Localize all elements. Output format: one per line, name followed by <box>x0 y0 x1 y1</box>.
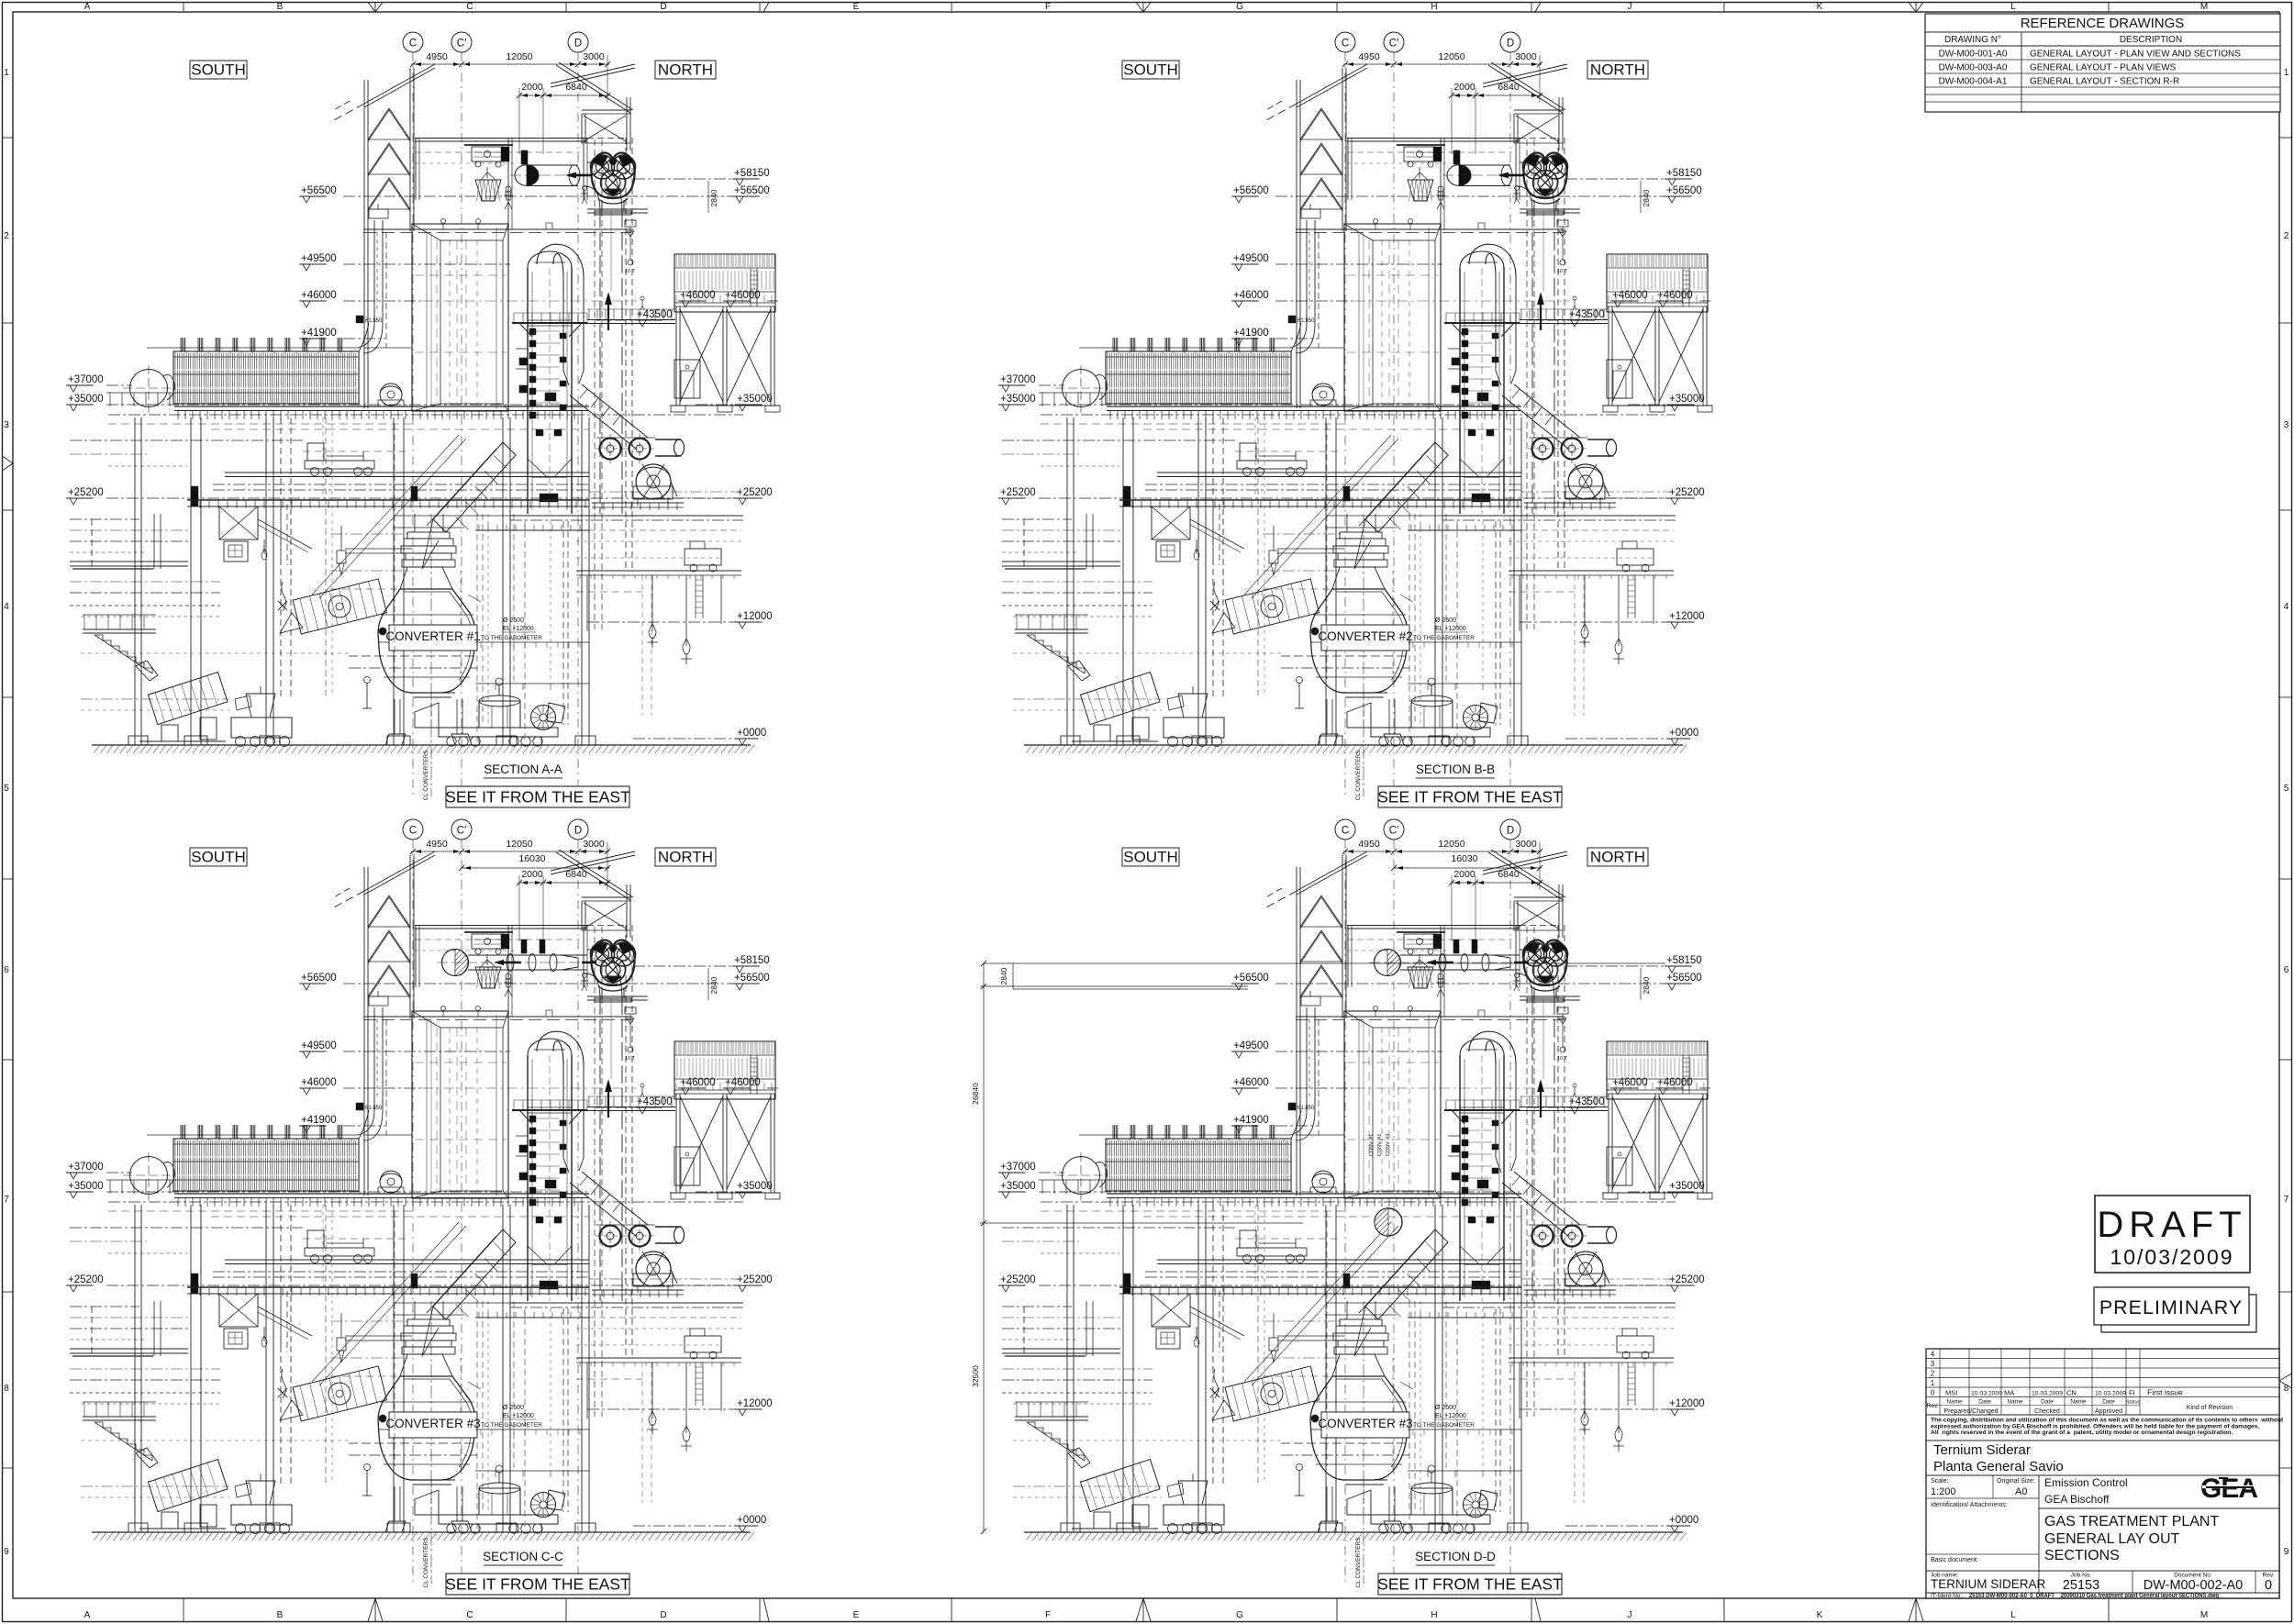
svg-text:1: 1 <box>2284 68 2289 78</box>
svg-text:0: 0 <box>1931 1389 1935 1397</box>
svg-text:CN: CN <box>2066 1388 2077 1396</box>
svg-text:E: E <box>853 1610 860 1620</box>
svg-text:GENERAL LAY OUT: GENERAL LAY OUT <box>2044 1531 2180 1547</box>
svg-text:D: D <box>660 1610 666 1620</box>
svg-text:6: 6 <box>4 965 9 975</box>
svg-text:IT-Ident-No.:: IT-Ident-No.: <box>1931 1593 1964 1599</box>
svg-text:Planta General Savio: Planta General Savio <box>1933 1459 2064 1474</box>
svg-text:Checked: Checked <box>2034 1408 2060 1415</box>
svg-text:SECTIONS: SECTIONS <box>2044 1548 2120 1563</box>
svg-text:L: L <box>2010 1610 2016 1620</box>
svg-text:GENERAL LAYOUT - PLAN VIEW AND: GENERAL LAYOUT - PLAN VIEW AND SECTIONS <box>2030 50 2241 60</box>
svg-text:Status: Status <box>2126 1400 2141 1406</box>
svg-text:Date: Date <box>1978 1399 1991 1406</box>
svg-text:H: H <box>1431 2 1437 12</box>
svg-text:CL CONVERTERS: CL CONVERTERS <box>1355 1537 1362 1588</box>
svg-text:SEE IT FROM THE EAST: SEE IT FROM THE EAST <box>1377 1575 1563 1594</box>
svg-text:3: 3 <box>2284 420 2289 430</box>
svg-text:SECTION B-B: SECTION B-B <box>1416 762 1495 776</box>
svg-text:J: J <box>1628 2 1632 12</box>
svg-text:DW-M00-001-A0: DW-M00-001-A0 <box>1939 50 2008 60</box>
svg-text:FI: FI <box>2129 1388 2135 1396</box>
svg-text:CONVERTER #3: CONVERTER #3 <box>385 1417 480 1430</box>
svg-text:REFERENCE DRAWINGS: REFERENCE DRAWINGS <box>2021 16 2185 31</box>
svg-text:DW-M00-002-A0: DW-M00-002-A0 <box>2144 1578 2244 1593</box>
svg-text:B: B <box>277 1610 284 1620</box>
svg-text:5: 5 <box>2284 784 2289 794</box>
svg-text:10.03.2009: 10.03.2009 <box>1971 1390 2002 1396</box>
svg-text:Date: Date <box>2102 1399 2115 1406</box>
svg-text:D: D <box>660 2 666 12</box>
svg-text:32500: 32500 <box>971 1365 980 1387</box>
svg-text:K: K <box>1817 1610 1823 1620</box>
svg-text:Kind of Revision: Kind of Revision <box>2187 1405 2233 1411</box>
svg-text:DRAFT: DRAFT <box>2097 1205 2246 1245</box>
svg-text:9: 9 <box>2284 1547 2289 1557</box>
svg-text:SEE IT FROM THE EAST: SEE IT FROM THE EAST <box>445 788 630 806</box>
svg-text:2: 2 <box>2284 231 2289 241</box>
svg-text:A: A <box>84 2 91 12</box>
svg-text:Prepared/Changed: Prepared/Changed <box>1943 1408 1998 1415</box>
svg-text:2: 2 <box>1931 1370 1935 1378</box>
svg-text:MA: MA <box>2004 1388 2014 1396</box>
svg-text:Name: Name <box>1946 1399 1963 1406</box>
svg-text:26840: 26840 <box>971 1083 980 1105</box>
svg-text:Approved: Approved <box>2095 1408 2122 1415</box>
svg-text:All rights reserved in the ev: All rights reserved in the event of the … <box>1931 1429 2233 1436</box>
svg-text:CONVERTER #3: CONVERTER #3 <box>1318 1417 1412 1430</box>
svg-text:K: K <box>1817 2 1823 12</box>
svg-text:MSI: MSI <box>1945 1388 1957 1396</box>
svg-text:3: 3 <box>1931 1360 1935 1368</box>
svg-text:GENERAL LAYOUT - PLAN VIEWS: GENERAL LAYOUT - PLAN VIEWS <box>2030 63 2177 73</box>
svg-text:GEA Bischoff: GEA Bischoff <box>2044 1493 2110 1506</box>
svg-text:M: M <box>2200 1610 2208 1620</box>
svg-text:1:200: 1:200 <box>1931 1486 1956 1497</box>
svg-text:M: M <box>2200 2 2208 12</box>
svg-text:6: 6 <box>2284 965 2289 975</box>
svg-text:A0: A0 <box>2015 1486 2027 1497</box>
svg-text:PRELIMINARY: PRELIMINARY <box>2099 1296 2243 1318</box>
svg-text:2: 2 <box>4 231 9 241</box>
svg-text:CL CONVERTERS: CL CONVERTERS <box>1355 750 1362 801</box>
svg-text:DRAWING N°: DRAWING N° <box>1944 35 2001 45</box>
svg-text:4: 4 <box>4 602 9 612</box>
svg-text:Date: Date <box>2041 1399 2054 1406</box>
svg-text:10.03.2009: 10.03.2009 <box>2032 1390 2063 1396</box>
svg-text:CONV. #1: CONV. #1 <box>1369 1134 1375 1157</box>
svg-text:Original Size:: Original Size: <box>1997 1478 2035 1485</box>
svg-text:25153: 25153 <box>2063 1578 2099 1593</box>
svg-text:CONVERTER #1: CONVERTER #1 <box>385 629 480 643</box>
svg-text:5: 5 <box>4 784 9 794</box>
svg-text:DW-M00-003-A0: DW-M00-003-A0 <box>1939 63 2008 73</box>
svg-text:GAS TREATMENT PLANT: GAS TREATMENT PLANT <box>2044 1514 2219 1529</box>
svg-text:A: A <box>84 1610 91 1620</box>
svg-text:7: 7 <box>2284 1195 2289 1205</box>
svg-text:Name: Name <box>2070 1399 2087 1406</box>
svg-text:G: G <box>1236 1610 1243 1620</box>
svg-text:SEE IT FROM THE EAST: SEE IT FROM THE EAST <box>1377 788 1563 806</box>
svg-text:9: 9 <box>4 1547 9 1557</box>
svg-text:SEE IT FROM THE EAST: SEE IT FROM THE EAST <box>445 1575 630 1594</box>
svg-text:E: E <box>853 2 860 12</box>
svg-text:10.03.2009: 10.03.2009 <box>2095 1390 2126 1396</box>
svg-text:Scale:: Scale: <box>1931 1478 1949 1485</box>
svg-text:CL CONVERTERS: CL CONVERTERS <box>423 1537 429 1588</box>
svg-text:Identification/ Attachments:: Identification/ Attachments: <box>1931 1502 2008 1508</box>
svg-text:SECTION C-C: SECTION C-C <box>483 1550 563 1563</box>
svg-text:F: F <box>1045 1610 1051 1620</box>
svg-text:7: 7 <box>4 1195 9 1205</box>
svg-text:10/03/2009: 10/03/2009 <box>2110 1245 2233 1269</box>
svg-text:2840: 2840 <box>999 967 1008 984</box>
svg-text:G: G <box>1236 2 1243 12</box>
svg-text:First issue: First issue <box>2147 1387 2183 1396</box>
svg-text:CONV. #3: CONV. #3 <box>1386 1134 1391 1157</box>
svg-text:8: 8 <box>4 1384 9 1394</box>
svg-text:1: 1 <box>4 68 9 78</box>
svg-text:H: H <box>1431 1610 1437 1620</box>
svg-text:DW-M00-004-A1: DW-M00-004-A1 <box>1939 77 2008 87</box>
svg-text:4: 4 <box>2284 602 2289 612</box>
svg-text:L: L <box>2010 2 2016 12</box>
svg-text:C: C <box>466 1610 473 1620</box>
svg-text:4: 4 <box>1931 1351 1935 1359</box>
svg-text:TERNIUM SIDERAR: TERNIUM SIDERAR <box>1931 1577 2046 1591</box>
svg-text:Emission Control: Emission Control <box>2044 1476 2128 1489</box>
svg-text:Basic document:: Basic document: <box>1931 1557 1978 1563</box>
svg-text:C: C <box>466 2 473 12</box>
svg-text:SECTION D-D: SECTION D-D <box>1415 1550 1496 1563</box>
svg-text:Name: Name <box>2007 1399 2023 1406</box>
svg-text:GEA: GEA <box>2200 1474 2257 1504</box>
svg-text:Ternium Siderar: Ternium Siderar <box>1933 1442 2031 1458</box>
svg-text:3: 3 <box>4 420 9 430</box>
svg-text:J: J <box>1628 1610 1632 1620</box>
svg-text:CL CONVERTERS: CL CONVERTERS <box>423 750 429 801</box>
svg-text:B: B <box>277 2 284 12</box>
svg-text:CONVERTER #2: CONVERTER #2 <box>1318 629 1412 643</box>
svg-text:0: 0 <box>2265 1578 2272 1593</box>
svg-text:Rev.: Rev. <box>1927 1403 1939 1409</box>
svg-text:GENERAL LAYOUT - SECTION R-R: GENERAL LAYOUT - SECTION R-R <box>2030 77 2179 87</box>
svg-text:CONV. #2: CONV. #2 <box>1377 1134 1383 1157</box>
svg-text:25153 DW-M00-002-A0_0_DRAFT__2: 25153 DW-M00-002-A0_0_DRAFT__20090310 Ga… <box>1969 1593 2219 1599</box>
svg-text:SECTION A-A: SECTION A-A <box>484 762 562 776</box>
svg-text:F: F <box>1045 2 1051 12</box>
svg-text:DESCRIPTION: DESCRIPTION <box>2120 35 2182 45</box>
svg-text:1: 1 <box>1931 1379 1935 1387</box>
